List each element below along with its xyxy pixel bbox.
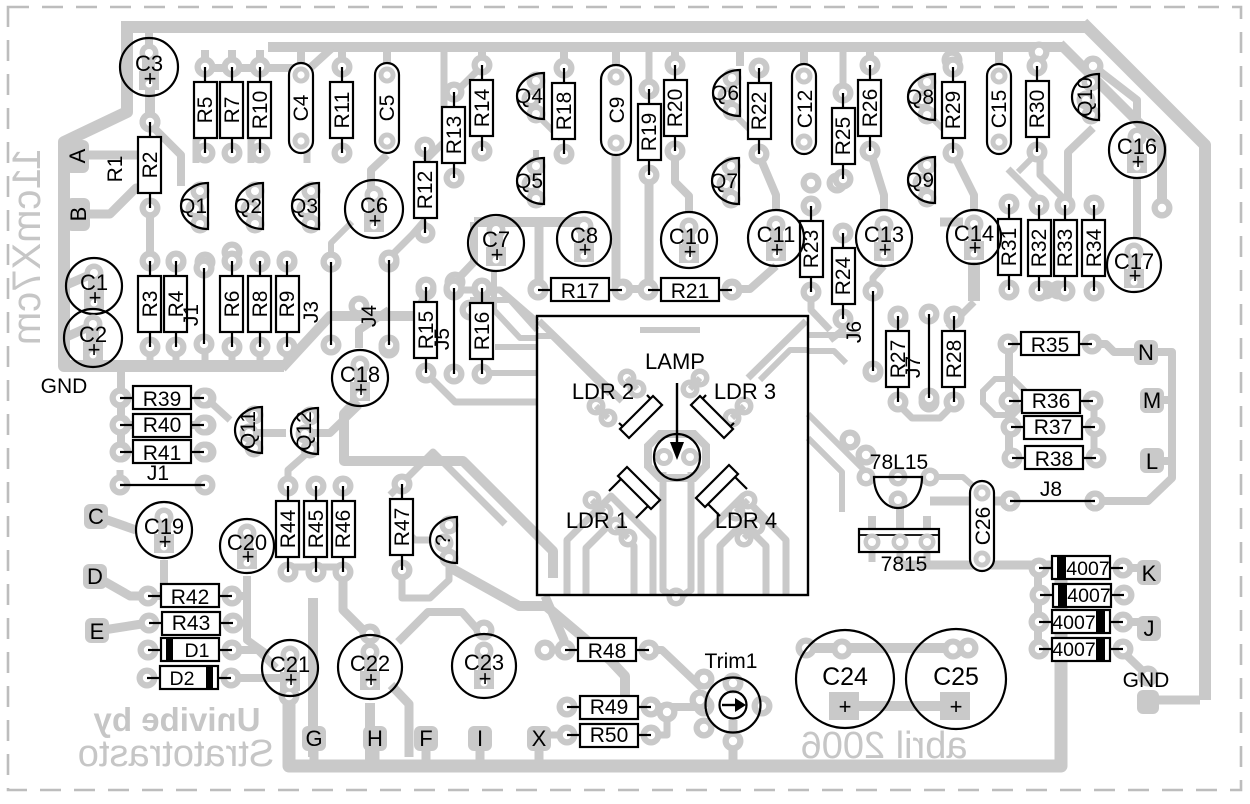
resistor R16 bbox=[470, 278, 494, 385]
wire c18 up bbox=[359, 310, 389, 348]
regulator 7815 bbox=[859, 529, 939, 576]
wire q8 diag bbox=[928, 114, 950, 136]
wire ldr link bbox=[616, 526, 628, 538]
wire c9 down bbox=[612, 155, 621, 289]
capacitor C25 bbox=[906, 629, 1006, 729]
wire r42 right bbox=[232, 592, 247, 600]
wire stub bbox=[949, 50, 957, 66]
wire gnd riser bbox=[282, 294, 427, 368]
resistor R41 bbox=[110, 440, 215, 465]
wire ldr pad bbox=[739, 491, 758, 510]
svg-text:R39: R39 bbox=[143, 388, 182, 411]
wire q row bbox=[196, 132, 205, 163]
svg-text:+: + bbox=[285, 667, 298, 692]
LDR enclosure box bbox=[537, 316, 808, 595]
transistor Q1 bbox=[179, 182, 210, 234]
svg-text:R42: R42 bbox=[171, 586, 210, 609]
svg-text:R16: R16 bbox=[471, 312, 494, 351]
resistor R32 bbox=[1028, 195, 1051, 302]
svg-text:J7: J7 bbox=[902, 356, 925, 378]
svg-text:D1: D1 bbox=[185, 640, 210, 662]
wire q6 diag bbox=[732, 112, 750, 130]
svg-text:R2: R2 bbox=[139, 152, 162, 179]
svg-text:R10: R10 bbox=[249, 91, 272, 130]
wire r33 diag bbox=[1040, 155, 1065, 200]
resistor R29 bbox=[942, 57, 965, 164]
svg-text:+: + bbox=[771, 237, 784, 262]
svg-text:Q9: Q9 bbox=[906, 169, 934, 192]
resistor R30 bbox=[1026, 56, 1049, 163]
svg-text:R34: R34 bbox=[1083, 228, 1106, 267]
resistor R49 bbox=[557, 696, 662, 719]
wire c23 left bbox=[398, 612, 484, 642]
svg-text:R1: R1 bbox=[104, 156, 127, 183]
wire diode j link bbox=[1120, 618, 1140, 626]
svg-text:R24: R24 bbox=[832, 256, 855, 295]
wire c6 link bbox=[371, 155, 387, 196]
capacitor C10 bbox=[661, 212, 717, 268]
svg-text:R22: R22 bbox=[748, 92, 771, 131]
resistor R40 bbox=[110, 414, 215, 437]
wire mid fan2 bbox=[470, 300, 537, 330]
wire ldr pad bbox=[628, 380, 647, 399]
wire box right fan bbox=[760, 350, 808, 380]
resistor R12 bbox=[414, 137, 437, 244]
wire box right h2 bbox=[808, 351, 846, 363]
svg-text:+: + bbox=[1132, 149, 1145, 174]
svg-text:R48: R48 bbox=[588, 640, 627, 663]
ground GND right bbox=[1123, 669, 1170, 714]
lamp LAMP bbox=[645, 349, 705, 480]
resistor R2 bbox=[138, 112, 162, 219]
capacitor C12 bbox=[792, 64, 817, 154]
svg-text:+: + bbox=[365, 667, 378, 692]
capacitor C14 bbox=[947, 210, 1001, 264]
svg-text:Q12: Q12 bbox=[293, 411, 316, 451]
pad B bbox=[66, 198, 91, 231]
transistor Q7 bbox=[710, 157, 741, 209]
wire r17-r21 mid bbox=[623, 285, 648, 293]
svg-text:L: L bbox=[1146, 449, 1158, 474]
wire diode links bbox=[1034, 568, 1042, 649]
diode D3 bbox=[1029, 556, 1134, 580]
wire R37-38 right link bbox=[1091, 401, 1098, 458]
wire stub bbox=[612, 50, 620, 66]
wire box chevron R2 bbox=[720, 523, 766, 594]
wire stub bbox=[866, 50, 874, 66]
svg-text:11cmX7cm: 11cmX7cm bbox=[5, 148, 49, 345]
svg-text:R25: R25 bbox=[832, 117, 855, 156]
wire c22 down bbox=[365, 703, 375, 762]
wire c20-c21 bbox=[247, 576, 268, 655]
svg-text:+: + bbox=[369, 208, 382, 233]
wire q11-q12 bbox=[254, 429, 286, 437]
wire j4 top diag bbox=[389, 220, 425, 258]
svg-text:C15: C15 bbox=[988, 90, 1011, 129]
transistor Q4 bbox=[515, 72, 546, 124]
resistor R44 bbox=[276, 476, 300, 583]
wire R36-38 left link bbox=[1005, 344, 1013, 458]
svg-text:B: B bbox=[66, 207, 91, 222]
wire gnd right link bbox=[1120, 649, 1148, 676]
resistor R31 bbox=[998, 194, 1021, 301]
wire stub G bbox=[310, 745, 319, 762]
svg-text:R6: R6 bbox=[221, 291, 244, 318]
resistor R5 bbox=[194, 57, 217, 164]
capacitor C24 bbox=[796, 630, 894, 728]
capacitor C19 bbox=[136, 502, 192, 558]
capacitor C17 bbox=[1107, 238, 1161, 292]
svg-text:4007: 4007 bbox=[1052, 639, 1095, 661]
wire r48 right bbox=[649, 650, 702, 688]
resistor R7 bbox=[220, 57, 244, 164]
capacitor C2 bbox=[64, 309, 122, 367]
resistor R23 bbox=[800, 196, 823, 303]
wire stub F bbox=[422, 745, 431, 762]
svg-text:R30: R30 bbox=[1026, 90, 1049, 129]
resistor R17 bbox=[528, 278, 633, 303]
svg-text:X: X bbox=[532, 726, 547, 751]
svg-text:LDR 2: LDR 2 bbox=[572, 379, 634, 404]
regulator 78L15 bbox=[857, 451, 940, 510]
wire C24-C25 plus link bbox=[842, 701, 956, 711]
wire top bus inner bbox=[268, 42, 1064, 52]
svg-text:J1: J1 bbox=[180, 304, 203, 326]
wire left bus bbox=[64, 21, 284, 366]
wire ldr pad bbox=[681, 380, 700, 399]
wire stub bbox=[1033, 50, 1041, 66]
photoresistor LDR1 bbox=[566, 467, 660, 533]
wire 7815 risers bbox=[868, 516, 876, 528]
wire ldr pad bbox=[619, 529, 638, 548]
svg-text:C25: C25 bbox=[933, 663, 979, 691]
svg-text:R12: R12 bbox=[414, 171, 437, 210]
resistor R14 bbox=[470, 55, 494, 162]
wire x-r50 bbox=[551, 732, 568, 739]
resistor R34 bbox=[1082, 195, 1106, 302]
svg-text:A: A bbox=[65, 148, 90, 163]
resistor R15 bbox=[414, 277, 438, 384]
wire c14 left bbox=[940, 218, 963, 227]
svg-text:Q5: Q5 bbox=[515, 170, 543, 193]
wire q?b link bbox=[402, 565, 449, 598]
wire ldr link bbox=[690, 378, 700, 389]
svg-text:+: + bbox=[355, 377, 368, 402]
wire j1b trace bbox=[117, 470, 124, 485]
wire box diag tl2 bbox=[537, 336, 610, 394]
wire d2 right bbox=[230, 678, 290, 696]
wire B trace bbox=[89, 188, 149, 214]
svg-text:+: + bbox=[879, 237, 892, 262]
resistor R25 bbox=[832, 83, 855, 190]
svg-text:Q7: Q7 bbox=[710, 170, 738, 193]
svg-text:I: I bbox=[477, 726, 483, 751]
wire j6 top bbox=[873, 266, 884, 291]
wire 7815 risers2 bbox=[896, 508, 904, 528]
svg-text:R33: R33 bbox=[1054, 229, 1077, 268]
svg-text:C4: C4 bbox=[290, 94, 313, 121]
resistor R19 bbox=[638, 79, 661, 186]
resistor R20 bbox=[664, 55, 687, 162]
capacitor C4 bbox=[289, 63, 313, 153]
wire top-right chamfer inner bbox=[1060, 44, 1162, 208]
svg-text:R40: R40 bbox=[143, 414, 182, 437]
wire stub bbox=[228, 50, 236, 66]
wire c21 down bbox=[285, 700, 295, 762]
wire ldr link bbox=[732, 406, 744, 418]
pad N bbox=[1134, 340, 1158, 365]
silkscreen text abril 2006 bbox=[801, 725, 968, 767]
wire C2 link bbox=[64, 325, 93, 338]
svg-text:R38: R38 bbox=[1035, 448, 1074, 471]
wire R40 jumper link bbox=[121, 421, 205, 429]
resistor R9 bbox=[276, 251, 299, 358]
svg-text:R19: R19 bbox=[638, 113, 661, 152]
wire r19 down bbox=[645, 174, 654, 289]
wire NML connector bbox=[1100, 352, 1172, 501]
wire ldr pad bbox=[691, 369, 710, 388]
capacitor C11 bbox=[748, 210, 804, 266]
wire subbus r5r7r10 bbox=[200, 48, 332, 68]
svg-text:R32: R32 bbox=[1028, 229, 1051, 268]
wire ldr link bbox=[736, 500, 748, 512]
jumper J7 bbox=[902, 304, 940, 409]
svg-text:M: M bbox=[1143, 388, 1161, 413]
svg-text:R3: R3 bbox=[139, 291, 162, 318]
wire lamp pads bbox=[655, 448, 699, 466]
svg-text:R9: R9 bbox=[276, 291, 299, 318]
svg-text:4007: 4007 bbox=[1052, 612, 1095, 634]
wire dumbbell r3233 bbox=[1037, 281, 1068, 300]
wire top bus outer bbox=[121, 21, 1087, 33]
wire R2 down bbox=[146, 209, 154, 262]
wire box right diag2 bbox=[808, 438, 842, 512]
wire stub H bbox=[371, 745, 380, 762]
wire q4 diag bbox=[536, 114, 561, 139]
wire lamp bottom pad bbox=[667, 588, 686, 607]
wire C24-C25 top link bbox=[806, 643, 968, 653]
svg-text:+: + bbox=[491, 242, 504, 267]
jumper J5 bbox=[431, 278, 465, 385]
svg-text:+: + bbox=[159, 529, 172, 554]
svg-text:R18: R18 bbox=[553, 92, 576, 131]
pad H bbox=[363, 726, 387, 751]
transistor Q12 bbox=[291, 407, 320, 459]
wire box chevron L2 bbox=[586, 523, 634, 594]
capacitor C18 bbox=[332, 350, 388, 406]
wire q12 right bbox=[310, 405, 359, 433]
svg-text:Q6: Q6 bbox=[711, 82, 739, 105]
wire stub bbox=[202, 348, 209, 362]
resistor R38 bbox=[1002, 446, 1107, 471]
capacitor C3 bbox=[120, 38, 178, 96]
wire q row2 bbox=[251, 132, 260, 163]
photoresistor LDR4 bbox=[696, 465, 777, 533]
svg-text:G: G bbox=[305, 726, 322, 751]
svg-text:Q10: Q10 bbox=[1074, 77, 1097, 117]
svg-text:R8: R8 bbox=[249, 291, 272, 318]
wire stub bbox=[257, 348, 264, 362]
photoresistor LDR2 bbox=[572, 379, 662, 438]
wire stub bbox=[284, 348, 291, 362]
svg-text:R17: R17 bbox=[561, 280, 600, 303]
wire 7815 stub dn3 bbox=[924, 552, 931, 562]
wire C1 link bbox=[64, 273, 94, 286]
wire ring bbox=[983, 379, 1025, 415]
svg-text:GND: GND bbox=[41, 375, 88, 398]
svg-text:K: K bbox=[1142, 561, 1157, 586]
diode D6 bbox=[1029, 638, 1134, 661]
wire c13 top bbox=[870, 150, 884, 210]
resistor R18 bbox=[552, 58, 576, 165]
wire stub bbox=[736, 50, 744, 66]
wire 7815 risers3 bbox=[923, 516, 931, 528]
svg-text:D2: D2 bbox=[170, 668, 195, 690]
resistor R27 bbox=[886, 306, 910, 413]
wire box left fan bbox=[494, 271, 537, 338]
svg-text:R29: R29 bbox=[942, 91, 965, 130]
wire box right h1 bbox=[808, 332, 860, 338]
svg-text:R7: R7 bbox=[221, 97, 244, 124]
wire R35 to N bbox=[1091, 344, 1140, 352]
svg-text:R49: R49 bbox=[590, 696, 629, 719]
svg-text:J6: J6 bbox=[843, 321, 866, 343]
resistor R45 bbox=[304, 476, 328, 583]
svg-text:J3: J3 bbox=[300, 301, 323, 323]
svg-text:R11: R11 bbox=[331, 92, 354, 129]
capacitor C7 bbox=[468, 215, 524, 271]
wire r34 riser bbox=[1068, 128, 1093, 202]
wire j8 trace bbox=[930, 497, 1010, 506]
svg-text:R47: R47 bbox=[391, 508, 414, 547]
capacitor C1 bbox=[66, 258, 122, 314]
wire stub bbox=[201, 50, 209, 66]
svg-text:R20: R20 bbox=[664, 89, 687, 128]
wire lamp down pair bbox=[663, 472, 672, 596]
jumper J8 bbox=[1000, 478, 1106, 512]
svg-text:R45: R45 bbox=[305, 510, 328, 549]
wire R39-41 link bbox=[117, 372, 125, 452]
svg-text:C9: C9 bbox=[606, 97, 629, 124]
svg-text:LDR 3: LDR 3 bbox=[714, 379, 776, 404]
wire c7 down bbox=[455, 222, 474, 282]
wire NML stub M bbox=[1155, 396, 1172, 404]
wire ldr pad bbox=[587, 397, 606, 416]
wire box bl diag2 bbox=[545, 596, 564, 652]
wire stub X bbox=[535, 745, 544, 762]
wire r30 diag bbox=[1018, 153, 1037, 172]
wire c14 strip bbox=[968, 262, 980, 301]
transistor Q10 bbox=[1072, 73, 1101, 125]
wire stub bbox=[383, 50, 391, 66]
wire trim stub bbox=[729, 720, 738, 766]
wire q11 links bbox=[206, 398, 230, 420]
wire r24 link bbox=[830, 318, 843, 340]
resistor R39 bbox=[110, 386, 215, 411]
svg-text:Trim1: Trim1 bbox=[705, 650, 758, 673]
svg-text:R26: R26 bbox=[859, 89, 882, 128]
svg-text:C12: C12 bbox=[794, 90, 817, 129]
diode D2 bbox=[137, 666, 242, 690]
pad J bbox=[1137, 616, 1161, 641]
resistor R8 bbox=[248, 251, 272, 358]
capacitor C8 bbox=[557, 212, 611, 266]
svg-text:GND: GND bbox=[1123, 669, 1170, 692]
svg-text:R43: R43 bbox=[172, 612, 211, 635]
wire box diag tr bbox=[748, 321, 806, 378]
wire r21 right bbox=[732, 266, 776, 289]
photoresistor LDR3 bbox=[691, 379, 776, 438]
wire stub bbox=[256, 50, 264, 66]
wire bottom bus bbox=[289, 565, 1061, 766]
wire lamp octagon bbox=[648, 434, 706, 478]
pad C bbox=[84, 504, 108, 529]
silkscreen text Stratotrasto bbox=[78, 733, 274, 775]
resistor R43 bbox=[139, 612, 244, 635]
wire r13 diag bbox=[454, 70, 478, 94]
svg-text:+: + bbox=[144, 66, 157, 91]
resistor R1 bbox=[104, 156, 127, 183]
wire top-right chamfer outer bbox=[1083, 23, 1205, 700]
svg-text:R28: R28 bbox=[943, 340, 966, 379]
wire c14 diag dn bbox=[948, 302, 974, 328]
svg-text:+: + bbox=[969, 235, 982, 260]
resistor R6 bbox=[220, 251, 244, 358]
wire c14 top bbox=[953, 153, 974, 210]
wire ldr pad bbox=[583, 491, 602, 510]
wire E trace bbox=[97, 623, 148, 631]
svg-text:Q11: Q11 bbox=[237, 411, 260, 449]
svg-text:N: N bbox=[1138, 340, 1154, 365]
wire c7c8 link bbox=[474, 217, 583, 227]
pad E bbox=[85, 618, 109, 644]
resistor R47 bbox=[390, 474, 414, 581]
wire gnd connector right bbox=[1150, 696, 1200, 705]
wire ldr pad bbox=[735, 397, 754, 416]
wire diode k link bbox=[1120, 564, 1140, 572]
svg-text:+: + bbox=[89, 285, 102, 310]
svg-text:+: + bbox=[479, 666, 492, 691]
wire box bl diag bbox=[451, 568, 625, 704]
svg-text:+: + bbox=[579, 237, 592, 262]
svg-text:Q8: Q8 bbox=[906, 86, 934, 109]
svg-text:?: ? bbox=[432, 534, 455, 546]
resistor R26 bbox=[858, 55, 882, 162]
wire r25 stub bbox=[840, 52, 847, 93]
resistor R21 bbox=[638, 278, 743, 303]
wire r19 stub bbox=[646, 52, 653, 89]
wire ldr link bbox=[596, 406, 608, 418]
svg-text:4007: 4007 bbox=[1066, 558, 1109, 580]
wire r16 into box bbox=[479, 370, 537, 376]
wire c3 to r2 bbox=[145, 86, 155, 122]
resistor R22 bbox=[748, 58, 771, 165]
wire ldr link bbox=[627, 378, 637, 389]
resistor R10 bbox=[248, 57, 272, 164]
wire ldr pad bbox=[595, 503, 614, 522]
svg-text:H: H bbox=[367, 726, 383, 751]
wire q row3 bbox=[304, 146, 311, 163]
wire stub bbox=[995, 50, 1003, 66]
svg-text:J1: J1 bbox=[147, 462, 169, 485]
pad L bbox=[1140, 448, 1164, 474]
wire d-row right bbox=[232, 650, 276, 668]
pad M bbox=[1140, 388, 1164, 413]
wire stub bbox=[147, 348, 154, 362]
wire c11 top bbox=[759, 155, 776, 210]
wire r17feed bbox=[535, 224, 544, 289]
transistor Q8 bbox=[906, 73, 937, 125]
